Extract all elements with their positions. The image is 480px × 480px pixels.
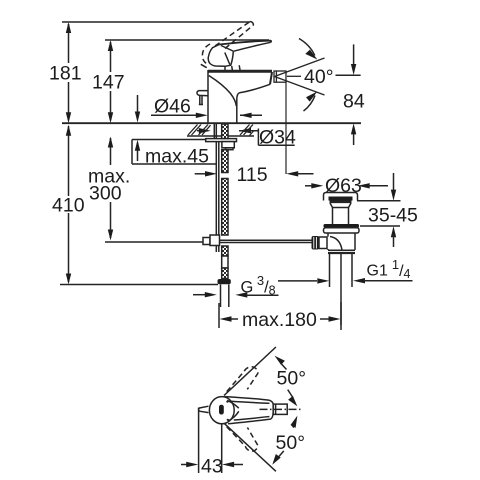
plan view: centerline — [260, 408, 303, 410]
svg-text:Ø46: Ø46 — [154, 96, 191, 118]
40° upper arc arrow — [299, 39, 317, 60]
pop-up rod vertical — [216, 142, 219, 235]
solid stroke below dashed knob — [201, 64, 207, 67]
plan view: pop-up rod tab — [199, 406, 209, 412]
svg-text:max.45: max.45 — [145, 146, 209, 168]
swing limit ray upper — [224, 347, 276, 396]
supply tube — [221, 285, 229, 308]
dimension max.300 — [108, 137, 113, 241]
horizontal pop-up rod to drain — [220, 240, 313, 242]
top reference line (raised lever height) — [62, 21, 250, 23]
nut lower step — [226, 148, 234, 150]
dimension Ø63 arrows — [305, 183, 388, 188]
max.45 callout box — [132, 140, 217, 165]
svg-text:35-45: 35-45 — [368, 205, 418, 227]
aerator extension line down to 115 dim — [285, 82, 287, 174]
drain body — [328, 233, 355, 250]
swing limit ray lower — [224, 424, 276, 472]
dimension Ø34 arrows — [197, 128, 258, 133]
dimension 410 — [66, 125, 71, 285]
dashed lever position upper — [227, 367, 258, 392]
plan view: lever pill outline — [224, 397, 273, 424]
svg-text:50°: 50° — [277, 368, 307, 390]
svg-text:43: 43 — [201, 456, 223, 478]
svg-text:147: 147 — [92, 72, 125, 94]
G3/8 nut — [218, 279, 231, 284]
svg-text:50°: 50° — [276, 432, 306, 454]
drain flange (Ø63) — [324, 193, 358, 202]
svg-text:Ø63: Ø63 — [325, 175, 362, 197]
dimension 147 — [108, 40, 113, 123]
second reference line (lever tip height) — [105, 39, 269, 41]
drain upper cylinder — [333, 208, 349, 225]
dimension 35-45 — [357, 173, 401, 247]
50° upper leader arrows — [275, 356, 298, 406]
mounting nut — [222, 142, 234, 148]
aerator — [274, 71, 286, 82]
threaded shank below deck (cross-hatched) — [214, 124, 228, 139]
dimension Ø46 leader line — [151, 113, 262, 118]
svg-text:300: 300 — [89, 183, 122, 205]
washer plate — [206, 139, 237, 142]
dimension max.180 — [219, 302, 341, 330]
svg-text:115: 115 — [237, 164, 268, 186]
dimension 115 — [195, 171, 314, 176]
pop-up knob on body left — [197, 91, 208, 105]
faucet body outline — [208, 70, 272, 123]
deck hatching — [188, 125, 254, 136]
40° lower arc arrow — [304, 92, 318, 112]
deck slab bottom line — [187, 135, 254, 137]
lever dashed raised position — [202, 22, 253, 65]
max.300 bottom reference line — [105, 241, 203, 243]
plan view: black slot — [219, 405, 224, 415]
svg-text:84: 84 — [343, 91, 365, 113]
G3/8 pointer arrows — [193, 292, 279, 298]
svg-text:max.180: max.180 — [242, 309, 317, 331]
40° upper ray — [275, 58, 325, 77]
dashed lever position lower — [227, 427, 258, 452]
svg-text:Ø34: Ø34 — [259, 127, 296, 149]
deck line — [62, 122, 361, 124]
50° lower leader arrows — [272, 416, 297, 465]
dimension 181 — [66, 22, 71, 123]
svg-text:181: 181 — [49, 63, 82, 85]
svg-text:410: 410 — [52, 195, 85, 217]
plan view: aerator stub — [273, 404, 287, 414]
lever solid — [208, 41, 271, 71]
dimension G1 1/4 arrows — [278, 278, 413, 284]
dimension 84 — [336, 44, 361, 145]
40° leader line — [287, 75, 301, 77]
flexible supply hose (checkered) — [222, 150, 228, 279]
pop-up rod T-fitting — [203, 235, 220, 252]
plan view: pivot dots — [226, 401, 228, 403]
drain rod knob (knurled) — [312, 236, 328, 250]
410 bottom reference line — [60, 284, 218, 286]
dimension 43 — [181, 408, 243, 474]
drain tailpipe G1 1/4 — [330, 254, 353, 325]
Ø34 label bracket — [258, 129, 294, 146]
svg-text:40°: 40° — [304, 66, 334, 88]
drain locknut — [324, 224, 360, 233]
40° lower ray — [275, 77, 325, 96]
drain body bottom lines — [328, 250, 355, 253]
plan view: body circle — [209, 397, 234, 424]
Ø46 extension down arrow — [135, 95, 140, 123]
drain upper neck taper — [330, 203, 351, 208]
